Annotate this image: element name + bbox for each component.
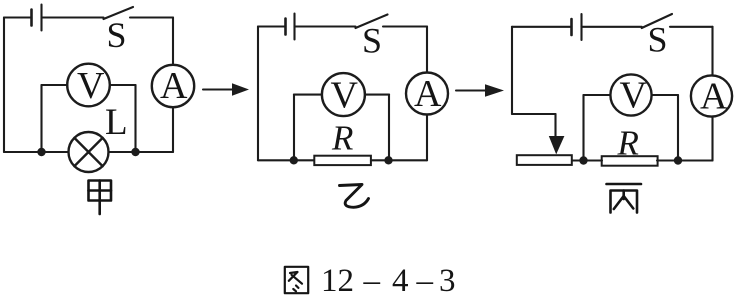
svg-text:V: V <box>331 74 359 116</box>
svg-text:A: A <box>700 76 728 118</box>
rheostat wiper arrow head <box>549 136 565 154</box>
battery B2 short plate <box>284 19 287 35</box>
switch S3 blade <box>642 14 672 28</box>
svg-text:R: R <box>331 119 353 158</box>
wire: switch to top-right corner <box>670 26 713 28</box>
node junction dot left of resistor <box>579 156 587 164</box>
wire: ammeter to bottom wire <box>426 115 428 161</box>
resistor R2 box <box>314 156 371 165</box>
node junction dot right of resistor <box>674 156 682 164</box>
arrow shaft <box>203 88 237 90</box>
wire: bottom left segment <box>4 151 69 153</box>
node junction dot left of lamp <box>37 148 45 156</box>
svg-text:R: R <box>617 124 639 163</box>
label jia (circuit 1 name) <box>89 181 112 215</box>
wire: left outer vertical <box>3 18 5 153</box>
wire: voltmeter branch right horizontal <box>365 94 389 96</box>
wire: left outer vertical <box>257 27 259 161</box>
wire: top-left segment to battery <box>512 26 572 28</box>
label tu (caption character) <box>285 267 308 293</box>
node junction dot right of lamp <box>131 148 139 156</box>
battery B3 long plate <box>580 14 582 40</box>
rheostat RP box <box>517 155 572 165</box>
wire: bottom right segment <box>371 159 427 161</box>
svg-text:–: – <box>416 263 434 295</box>
wire: voltmeter branch left vertical <box>582 95 584 161</box>
ammeter A2 circle <box>406 73 448 115</box>
lamp L1 circle <box>69 132 109 172</box>
node junction dot left of resistor <box>290 156 298 164</box>
battery B1 long plate <box>40 5 42 31</box>
arrow shaft <box>456 89 490 91</box>
wire: top-left segment to battery <box>258 25 286 27</box>
wire: voltmeter branch right horizontal <box>652 94 678 96</box>
wire: battery to switch <box>295 25 356 27</box>
wire: left outer vertical <box>511 27 513 114</box>
wire: voltmeter branch right vertical <box>134 85 136 152</box>
svg-text:A: A <box>414 73 442 115</box>
wire: bottom right segment <box>109 151 174 153</box>
wire: voltmeter branch left horizontal <box>42 84 68 86</box>
svg-text:12: 12 <box>321 263 354 295</box>
voltmeter V3 circle <box>610 74 651 115</box>
wire: right branch down to ammeter <box>426 27 428 73</box>
ammeter A1 circle <box>152 65 194 107</box>
svg-text:A: A <box>160 65 188 107</box>
voltmeter V1 circle <box>67 64 110 107</box>
wire: voltmeter branch left horizontal <box>584 94 611 96</box>
wire: voltmeter branch left horizontal <box>294 94 322 96</box>
wire: battery to switch <box>582 26 642 28</box>
wire: voltmeter branch left vertical <box>293 95 295 161</box>
wire: switch to top-right corner <box>130 16 173 18</box>
wire: ammeter to bottom wire <box>711 117 713 161</box>
lamp L1 cross stroke 1 <box>74 138 102 166</box>
wire: battery to switch <box>42 16 104 18</box>
lamp L1 cross stroke 2 <box>74 138 102 166</box>
wire: right branch down to ammeter <box>172 18 174 66</box>
svg-text:V: V <box>620 74 648 116</box>
svg-text:L: L <box>105 102 128 143</box>
battery B3 short plate <box>570 19 573 35</box>
wire: rheostat to node <box>572 159 602 161</box>
node junction dot right of resistor <box>384 156 392 164</box>
label bing (circuit 3 name) <box>607 184 642 213</box>
svg-text:S: S <box>648 20 668 60</box>
battery B2 long plate <box>293 14 295 40</box>
switch S1 blade <box>104 7 134 19</box>
svg-text:V: V <box>77 65 105 107</box>
label yi (circuit 2 name) <box>340 185 369 208</box>
wire: voltmeter branch left vertical <box>40 85 42 152</box>
wire: switch to top-right corner <box>383 25 427 27</box>
arrow head <box>232 83 249 95</box>
ammeter A3 circle <box>691 75 732 116</box>
switch S2 blade <box>356 15 388 29</box>
arrow head <box>485 84 504 97</box>
svg-text:4: 4 <box>392 263 409 295</box>
svg-text:S: S <box>362 21 382 61</box>
wire: wiper vertical <box>554 114 556 139</box>
svg-text:S: S <box>107 15 127 55</box>
wire: voltmeter branch right horizontal <box>110 84 136 86</box>
wire: voltmeter branch right vertical <box>677 95 679 161</box>
wire: right branch down to ammeter <box>711 27 713 76</box>
svg-text:3: 3 <box>439 263 456 295</box>
voltmeter V2 circle <box>322 73 365 116</box>
wire: bottom left segment <box>258 159 314 161</box>
wire: voltmeter branch right vertical <box>388 95 390 161</box>
svg-text:–: – <box>363 263 381 295</box>
wire: bottom right segment <box>657 159 713 161</box>
wire: top-left segment to battery <box>4 16 32 18</box>
resistor R3 box <box>602 156 658 166</box>
wire: jog to wiper <box>512 113 556 115</box>
battery B1 short plate <box>30 10 33 26</box>
wire: ammeter to bottom wire <box>172 107 174 152</box>
